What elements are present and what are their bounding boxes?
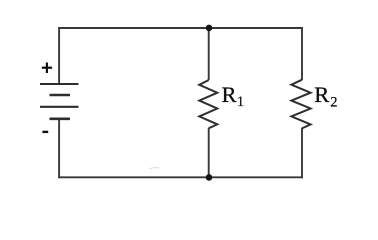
resistor R1 — [199, 80, 217, 128]
wire left bottom — [58, 119, 60, 178]
resistor R2 — [291, 80, 310, 129]
wire left top — [58, 27, 60, 84]
battery (voltage source) — [40, 84, 79, 119]
wire R1 bottom — [208, 128, 210, 178]
svg-text:R: R — [222, 82, 237, 107]
battery - terminal label — [42, 131, 48, 133]
wire bottom — [58, 176, 303, 178]
battery plate short bottom — [50, 118, 71, 121]
battery plate long lower — [40, 106, 79, 108]
battery plate short upper — [50, 94, 71, 97]
wire R2 bottom — [301, 128, 303, 178]
battery + terminal label — [42, 63, 52, 74]
wire R1 top — [208, 27, 210, 80]
scan artifact — [149, 168, 160, 170]
svg-text:1: 1 — [237, 94, 244, 110]
wire R2 top — [301, 27, 303, 80]
wire top — [58, 27, 303, 29]
node junction top (R1 branch) — [206, 25, 213, 32]
battery plate long top — [40, 83, 79, 85]
node junction bottom (R1 branch) — [206, 174, 213, 181]
svg-text:R: R — [314, 82, 329, 107]
svg-text:2: 2 — [330, 94, 337, 110]
